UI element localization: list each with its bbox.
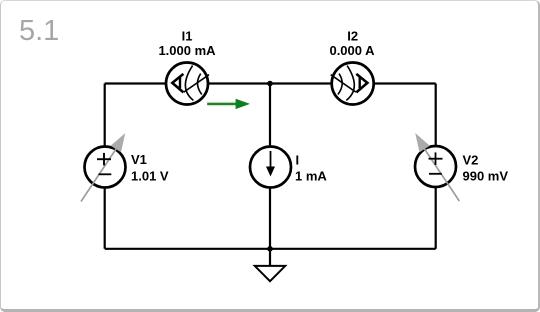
svg-text:I2: I2 bbox=[347, 28, 358, 43]
svg-text:5.1: 5.1 bbox=[19, 15, 59, 47]
voltage source V1 bbox=[81, 133, 126, 202]
voltage source V2 bbox=[415, 133, 459, 201]
wire middle bbox=[269, 84, 271, 249]
node junction top bbox=[267, 81, 273, 87]
svg-text:1.000 mA: 1.000 mA bbox=[158, 43, 216, 58]
node junction bottom bbox=[267, 246, 273, 252]
svg-text:V2: V2 bbox=[463, 152, 479, 167]
wire left bbox=[104, 84, 106, 249]
wire ground stub bbox=[269, 249, 271, 265]
svg-text:990 mV: 990 mV bbox=[463, 169, 509, 184]
ammeter I1 bbox=[166, 63, 209, 105]
svg-text:V1: V1 bbox=[131, 152, 147, 167]
wire bottom bbox=[105, 248, 436, 250]
svg-text:1 mA: 1 mA bbox=[295, 168, 327, 183]
wire top bbox=[105, 82, 436, 84]
svg-text:0.000 A: 0.000 A bbox=[329, 43, 375, 58]
svg-text:I1: I1 bbox=[182, 28, 193, 43]
ground bbox=[255, 266, 285, 281]
green current arrow bbox=[207, 99, 250, 109]
svg-text:1.01 V: 1.01 V bbox=[131, 169, 169, 184]
svg-text:I: I bbox=[296, 152, 300, 167]
ammeter I2 bbox=[331, 63, 374, 105]
current source I bbox=[250, 147, 291, 188]
wire right bbox=[435, 84, 437, 249]
